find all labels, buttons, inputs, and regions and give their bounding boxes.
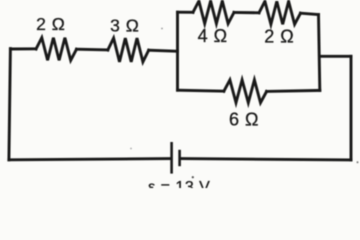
wire: block bottom edge, left segment (178, 90, 224, 91)
wire: block bottom edge, right segment (267, 90, 320, 91)
wire: block top edge, right segment (301, 13, 319, 14)
resistor 4 ohm (top branch) (193, 1, 234, 24)
wire: top-left corner to R1 (10, 47, 36, 50)
svg-text:4 Ω: 4 Ω (198, 26, 228, 46)
svg-text:2 Ω: 2 Ω (36, 14, 65, 34)
speckle dot above caption (192, 176, 194, 178)
wire: battery to bottom right corner (181, 159, 351, 160)
battery 13 V : long plate (170, 142, 173, 174)
svg-text:ε = 13 V: ε = 13 V (148, 179, 210, 188)
speckle dot left of parallel block (161, 28, 163, 30)
resistor 2 ohm (top left) (36, 38, 77, 61)
wire: bottom left run to battery (9, 159, 170, 160)
svg-text:3 Ω: 3 Ω (110, 16, 139, 36)
svg-text:6 Ω: 6 Ω (229, 109, 259, 129)
wire: right outer vertical (350, 56, 353, 160)
speckle dot near bottom-right corner (357, 161, 359, 163)
wire: block top edge, middle segment (234, 11, 259, 14)
speckle dot on bottom-left area (130, 148, 132, 150)
wire: parallel block right edge (319, 15, 320, 91)
wire: between 2 ohm and 3 ohm resistors (77, 48, 108, 52)
svg-text:2 Ω: 2 Ω (264, 26, 294, 46)
wire: parallel block left edge (176, 12, 179, 90)
resistor 6 ohm (bottom branch) (224, 80, 267, 103)
wire: block top edge, left segment (178, 11, 194, 14)
wire: left outer vertical (9, 49, 11, 160)
battery 13 V : short plate (178, 150, 181, 166)
resistor 3 ohm (108, 38, 149, 62)
resistor 2 ohm (top branch right) (259, 1, 301, 24)
wire: block right edge to outer right vertical (320, 55, 351, 58)
wire: 3 ohm resistor to parallel block (149, 50, 178, 51)
